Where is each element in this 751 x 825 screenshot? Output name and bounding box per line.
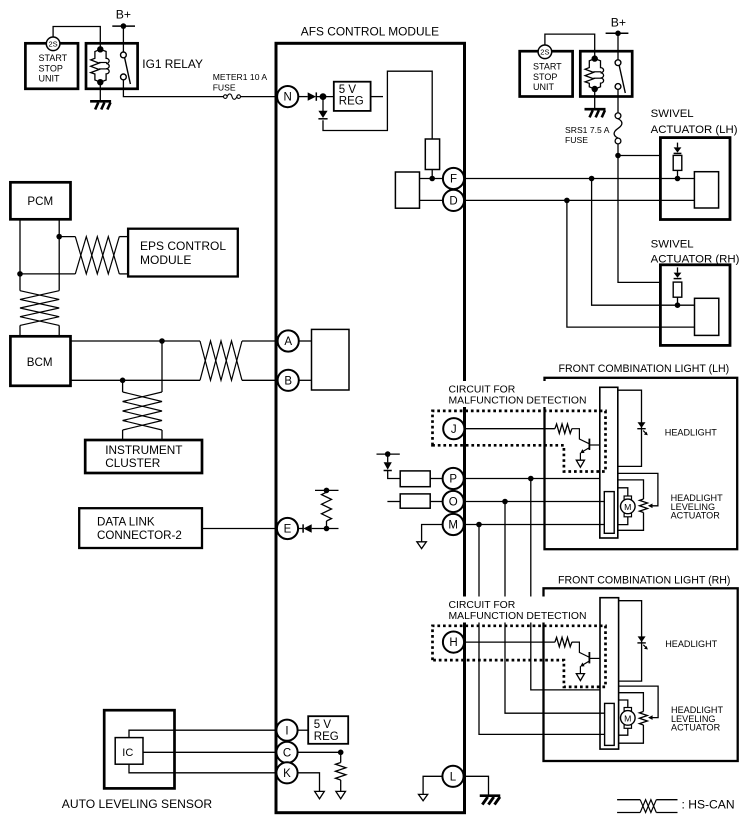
node PCM/EPS junction high	[56, 234, 62, 240]
wire sensor to pin K	[129, 764, 277, 773]
wire R7 to node	[677, 170, 679, 178]
diode D1 after pin N	[308, 92, 317, 100]
relay IG1 box	[86, 43, 138, 89]
svg-text:FRONT COMBINATION LIGHT (RH): FRONT COMBINATION LIGHT (RH)	[558, 575, 730, 587]
svg-text:P: P	[449, 474, 457, 486]
wire node to connector	[678, 304, 695, 306]
wire pin M to front lights	[464, 524, 604, 526]
module INSTRUMENT CLUSTER box	[85, 440, 202, 473]
wire pin P to front lights	[464, 478, 600, 480]
wire R8 to node	[677, 297, 679, 305]
pin P	[443, 468, 464, 489]
wire pin M to logic ground	[422, 525, 443, 542]
svg-text:UNIT: UNIT	[39, 74, 60, 84]
wire pin I to 5V REG (bottom)	[298, 729, 308, 731]
wire twisted pair to EPS box	[119, 237, 128, 274]
transistor Q2 with emitter ground	[572, 642, 600, 674]
wire relay coil to ground (right)	[594, 89, 596, 109]
svg-text:METER1 10 A: METER1 10 A	[213, 72, 268, 82]
resistor R1 (pull-up to pin F)	[425, 139, 439, 170]
svg-text:M: M	[624, 502, 631, 512]
svg-text:5 V: 5 V	[314, 719, 332, 731]
wire pin A internal	[299, 340, 312, 342]
svg-text:DATA LINK: DATA LINK	[97, 515, 155, 528]
connector block swivel RH	[695, 298, 719, 335]
ground (logic) at pin L	[419, 794, 428, 800]
swivel actuator RH box	[660, 265, 730, 346]
node at 5V REG input	[320, 93, 327, 100]
wire junction to swivel actuator LH	[618, 155, 660, 157]
label HEADLIGHT LEVELING ACTUATOR (LH)	[671, 493, 723, 521]
wire sensor to pin I	[129, 730, 277, 737]
node D branch	[564, 198, 570, 204]
node E1	[324, 526, 330, 532]
svg-text:K: K	[283, 768, 291, 780]
pin F	[443, 168, 464, 189]
node E2 top	[315, 488, 339, 494]
legend HS-CAN twisted pair	[617, 800, 677, 813]
wire PCM right leg	[58, 219, 60, 290]
diode D6 in swivel RH	[674, 267, 682, 278]
svg-text:FUSE: FUSE	[565, 135, 588, 145]
relay box (right)	[580, 51, 632, 96]
wire METER1 fuse to pin N	[241, 96, 278, 98]
module PCM box	[10, 182, 70, 219]
label START STOP UNIT (left)	[39, 53, 68, 84]
ground (chassis) under right relay	[585, 109, 606, 117]
connector strip LH	[600, 387, 618, 538]
svg-text:2S: 2S	[540, 48, 549, 57]
wire R3 to pin P	[430, 478, 443, 480]
svg-text:B+: B+	[611, 15, 626, 29]
ground (logic) at pin K	[315, 791, 325, 798]
svg-text:A: A	[284, 336, 292, 348]
wire pin F to swivel actuators	[464, 178, 678, 180]
start-stop unit (right)	[520, 51, 573, 96]
svg-text:ACTUATOR (LH): ACTUATOR (LH)	[651, 124, 738, 136]
svg-text:EPS CONTROL: EPS CONTROL	[140, 239, 226, 253]
twisted pair PCM-EPS (HS-CAN)	[75, 237, 119, 274]
wire B+ to IG1 relay switch	[122, 26, 124, 52]
svg-text:UNIT: UNIT	[533, 82, 554, 92]
wire diode to 5 V REG	[316, 96, 334, 98]
wire start-stop unit 2S to relay coil (right)	[545, 34, 595, 56]
svg-text:START: START	[39, 53, 68, 63]
label CIRCUIT FOR MALFUNCTION DETECTION (RH)	[446, 597, 593, 623]
connector block U2 at A/B	[312, 329, 350, 390]
pin M	[443, 514, 464, 535]
wire pin K to ground	[298, 773, 320, 791]
headlight RH LED	[637, 636, 648, 649]
svg-text:AFS CONTROL MODULE: AFS CONTROL MODULE	[301, 25, 439, 39]
module BCM box	[10, 336, 70, 386]
module DATA LINK CONNECTOR-2 box	[79, 508, 202, 548]
pin D	[443, 190, 464, 211]
twisted pair BCM-AFS (HS-CAN)	[200, 341, 242, 380]
ground (chassis) at pin L	[480, 796, 501, 805]
front combination light LH box	[545, 378, 738, 549]
wire junction A down	[161, 341, 163, 392]
pin C	[276, 742, 297, 763]
resistor R7 in swivel LH	[673, 155, 682, 170]
ground (logic) at pin M	[417, 542, 427, 549]
inner connector LH	[604, 492, 614, 534]
svg-text:INSTRUMENT: INSTRUMENT	[105, 443, 182, 457]
wire SRS1 fuse to junction	[617, 144, 619, 156]
wire O branch down to RH light	[505, 502, 605, 714]
twisted pair BCM-cluster (HS-CAN)	[123, 392, 162, 430]
svg-text:SWIVEL: SWIVEL	[651, 238, 694, 250]
wire F branch down to swivel RH	[592, 179, 678, 306]
node R1/F junction	[429, 176, 435, 182]
node swivel LH	[675, 176, 681, 182]
ground (logic) at pin C	[336, 791, 346, 798]
wire potentiometer top LH	[618, 480, 644, 499]
wiper arrow LH	[648, 504, 653, 509]
wire stub to resistor R4	[387, 501, 400, 503]
wire pin B internal	[299, 379, 312, 381]
wire pin C to pull-down	[298, 751, 341, 753]
svg-text:AUTO LEVELING SENSOR: AUTO LEVELING SENSOR	[62, 797, 213, 811]
svg-text:N: N	[284, 92, 292, 104]
regulator 5 V REG (top)	[334, 82, 371, 111]
node M branch	[476, 522, 482, 528]
node C branch	[338, 750, 344, 756]
svg-text:ACTUATOR: ACTUATOR	[671, 511, 721, 521]
wire resistor R1 to pin F	[431, 170, 433, 179]
node swivel RH	[675, 302, 681, 308]
svg-text:E: E	[284, 524, 292, 536]
ground (chassis) under IG1 relay	[90, 101, 111, 109]
pin A	[278, 330, 299, 351]
module AUTO LEVELING SENSOR box	[104, 710, 174, 788]
svg-text:IC: IC	[122, 747, 133, 759]
wire pin E internal	[298, 528, 303, 530]
terminal 2S (left)	[46, 37, 60, 51]
svg-text:FRONT COMBINATION LIGHT (LH): FRONT COMBINATION LIGHT (LH)	[559, 363, 730, 375]
wire twisted pair to instrument cluster	[123, 430, 162, 440]
resistor R5	[555, 424, 572, 433]
svg-text:I: I	[285, 725, 288, 737]
headlight RH bulb loop	[619, 601, 642, 681]
svg-text:PCM: PCM	[27, 195, 53, 208]
node P branch	[528, 476, 534, 482]
svg-text:HEADLIGHT: HEADLIGHT	[665, 427, 717, 437]
connector block swivel LH	[694, 172, 718, 208]
node O branch	[502, 499, 508, 505]
diode D3 at pin E	[303, 524, 312, 532]
module AFS CONTROL MODULE box	[276, 43, 465, 812]
wire U1 to pin D	[420, 199, 444, 201]
label HEADLIGHT LEVELING ACTUATOR (RH)	[671, 705, 723, 733]
wire motor top RH	[619, 700, 628, 708]
svg-text:M: M	[448, 520, 458, 532]
svg-text:STOP: STOP	[533, 72, 557, 82]
resistor R3 (pin P)	[400, 471, 430, 487]
wire IG1 relay switch to METER1 fuse	[123, 80, 223, 97]
svg-text:FUSE: FUSE	[213, 82, 236, 92]
wire pin J to resistor R5	[464, 428, 555, 430]
wire start-stop unit 2S to IG1 relay coil	[53, 27, 100, 48]
wiper arrow RH	[648, 715, 653, 720]
wire pin L to chassis ground	[463, 776, 489, 795]
wire pin N to diode	[298, 96, 308, 98]
svg-text:2S: 2S	[49, 40, 58, 49]
pin E	[277, 518, 298, 539]
pin L	[442, 766, 463, 787]
wire pin H to resistor R6	[464, 641, 555, 643]
node BCM/cluster junction A	[159, 338, 165, 344]
svg-text:F: F	[450, 174, 457, 186]
svg-text:MALFUNCTION DETECTION: MALFUNCTION DETECTION	[449, 396, 587, 407]
wire junction down to swivel actuator RH	[618, 156, 660, 283]
wire R4 to pin O	[430, 501, 443, 503]
dashed box circuit for malfunction detection (RH)	[433, 626, 606, 687]
label SWIVEL ACTUATOR (RH)	[651, 238, 740, 265]
svg-text:CIRCUIT FOR: CIRCUIT FOR	[449, 384, 516, 395]
wire sensor to pin C	[143, 751, 277, 753]
diode D5 in swivel LH	[674, 143, 682, 154]
wire twisted pair to BCM	[20, 325, 59, 336]
wire D branch down to swivel RH	[567, 200, 695, 327]
wire diode D4 to resistor R3	[388, 471, 401, 479]
pin N	[277, 86, 298, 107]
pin J	[443, 418, 464, 439]
node B+ (left)	[112, 8, 135, 29]
junction on B+ feed	[615, 153, 621, 159]
svg-text:M: M	[624, 713, 631, 723]
wire motor bottom LH	[618, 517, 628, 525]
svg-text:O: O	[449, 497, 458, 509]
module EPS CONTROL MODULE box	[128, 229, 238, 277]
svg-text:START: START	[533, 62, 562, 72]
relay coil (right)	[585, 59, 604, 89]
wire B+ to relay switch (right)	[617, 33, 619, 60]
regulator 5 V REG (bottom)	[308, 716, 348, 744]
wire potentiometer bottom LH	[618, 513, 644, 531]
pin I	[276, 720, 297, 741]
svg-text:HEADLIGHT: HEADLIGHT	[665, 639, 717, 649]
motor M1 (leveling LH)	[621, 496, 636, 517]
wire 5V REG output	[371, 96, 383, 98]
resistor R6	[555, 637, 572, 646]
wire pin D to swivel actuators	[464, 199, 694, 201]
svg-text:B+: B+	[116, 8, 131, 22]
svg-text:L: L	[450, 771, 457, 783]
front combination light RH box	[544, 588, 738, 761]
wire PCM to EPS (CAN low)	[20, 273, 75, 275]
node BCM/cluster junction B	[120, 378, 126, 384]
svg-text:BCM: BCM	[27, 356, 53, 369]
resistor R4 (pin O)	[400, 494, 430, 508]
diode D2 to internal rail	[318, 97, 327, 119]
connector strip RH	[600, 598, 619, 749]
svg-text:D: D	[449, 196, 457, 208]
svg-text:C: C	[283, 747, 291, 759]
relay switch (right)	[615, 60, 625, 93]
resistor R11 at pin C	[336, 752, 346, 791]
swivel actuator LH box	[660, 138, 730, 220]
wire diode to node E1	[312, 528, 339, 530]
node F branch	[589, 176, 595, 182]
svg-text:5 V: 5 V	[339, 84, 357, 96]
wire pin O to front lights	[464, 501, 604, 503]
wire PCM to EPS (CAN high)	[59, 236, 75, 238]
label SWIVEL ACTUATOR (LH)	[651, 108, 738, 136]
inner connector RH	[605, 703, 615, 745]
motor M2 (leveling RH)	[621, 708, 636, 729]
wire BCM to pin B	[71, 379, 278, 381]
wire wiper loop RH	[619, 686, 659, 718]
headlight LH bulb loop	[618, 390, 642, 466]
wire motor bottom RH	[619, 728, 628, 735]
potentiometer R10 RH	[639, 712, 647, 726]
svg-text:: HS-CAN: : HS-CAN	[682, 797, 735, 811]
svg-text:SWIVEL: SWIVEL	[651, 108, 694, 120]
wire wiper loop LH	[618, 473, 658, 505]
node PCM/EPS junction low	[17, 271, 23, 277]
wire U1 to pin F	[420, 178, 444, 180]
wire PCM left leg	[19, 219, 21, 290]
wire internal rail to pull-up resistor	[323, 71, 432, 139]
resistor R8 in swivel RH	[673, 282, 682, 297]
label METER1 10 A FUSE	[213, 72, 268, 92]
wire DLC-2 to pin E	[202, 528, 277, 530]
fuse METER1 10 A	[224, 94, 241, 99]
svg-text:CONNECTOR-2: CONNECTOR-2	[97, 529, 182, 542]
wire relay switch to SRS1 fuse	[617, 89, 619, 113]
wire pin L to logic ground	[423, 776, 442, 794]
relay IG1 switch	[121, 52, 131, 84]
pin O	[443, 491, 464, 512]
svg-text:MODULE: MODULE	[140, 253, 191, 267]
svg-text:SRS1 7.5 A: SRS1 7.5 A	[565, 125, 610, 135]
transistor Q1 with emitter ground	[572, 429, 600, 461]
wire node to connector	[678, 178, 695, 180]
node internal supply bar	[377, 451, 400, 457]
wire P branch down to RH light	[531, 479, 600, 690]
label START STOP UNIT (right)	[533, 62, 562, 93]
wire potentiometer top RH	[619, 693, 644, 712]
wire potentiometer bottom RH	[619, 725, 644, 743]
fuse SRS1 7.5 A	[614, 113, 622, 144]
relay IG1 coil	[91, 49, 110, 82]
label CIRCUIT FOR MALFUNCTION DETECTION (LH)	[446, 381, 593, 407]
pin K	[276, 762, 297, 783]
svg-text:ACTUATOR: ACTUATOR	[671, 723, 721, 733]
svg-text:REG: REG	[314, 731, 339, 743]
connector block U1 at F/D	[395, 172, 419, 208]
svg-text:CIRCUIT FOR: CIRCUIT FOR	[449, 600, 516, 611]
resistor R2 at pin E	[322, 490, 332, 528]
svg-text:H: H	[449, 637, 457, 649]
svg-text:CLUSTER: CLUSTER	[105, 456, 160, 470]
wire M branch down to RH light	[479, 525, 605, 735]
twisted pair PCM-BCM (HS-CAN)	[20, 291, 59, 326]
IC block in sensor	[115, 738, 143, 765]
label SRS1 7.5 A FUSE	[565, 125, 610, 145]
svg-text:IG1 RELAY: IG1 RELAY	[142, 57, 203, 71]
wire IG1 coil to ground	[99, 82, 101, 101]
dashed box circuit for malfunction detection (LH)	[433, 411, 606, 472]
svg-text:STOP: STOP	[39, 63, 63, 73]
potentiometer R9 LH	[640, 499, 648, 513]
wire BCM to pin A	[71, 340, 278, 342]
svg-text:J: J	[451, 424, 457, 436]
svg-text:REG: REG	[339, 95, 364, 107]
svg-text:B: B	[284, 375, 292, 387]
diode D4 above pin P	[384, 454, 392, 470]
wire junction B down	[122, 380, 124, 392]
start-stop unit (left)	[25, 43, 78, 89]
terminal 2S (right)	[538, 45, 552, 59]
node B+ (right)	[606, 15, 629, 36]
headlight LH LED	[637, 422, 648, 435]
wire motor top LH	[618, 488, 628, 496]
pin H	[443, 632, 464, 653]
pin B	[278, 370, 299, 391]
svg-text:MALFUNCTION DETECTION: MALFUNCTION DETECTION	[449, 611, 587, 622]
